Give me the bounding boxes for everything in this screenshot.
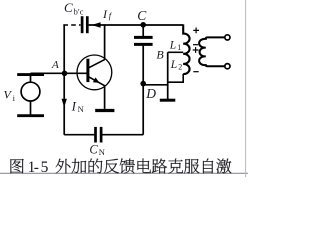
svg-text:-: - <box>34 159 39 176</box>
svg-text:5: 5 <box>41 159 49 176</box>
transistor base bar <box>86 59 89 82</box>
page rule vertical right <box>245 0 247 177</box>
svg-text:B: B <box>156 48 164 62</box>
svg-text:A: A <box>51 59 59 71</box>
transformer secondary coil <box>199 37 224 66</box>
svg-text:L: L <box>169 40 176 52</box>
wire: tap B to coil <box>168 51 184 53</box>
secondary terminal bottom <box>225 64 230 69</box>
transistor collector diagonal <box>89 59 105 67</box>
capacitor C leads <box>142 25 144 36</box>
wire: L2 bottom return <box>168 74 183 82</box>
node D junction dot <box>140 81 146 87</box>
wire: bottom horizontal right of CN <box>102 134 143 136</box>
transistor Q1 circle <box>77 55 112 90</box>
secondary terminal top <box>225 35 230 40</box>
ground bar at D <box>160 99 176 102</box>
source Vi vertical lead <box>30 73 32 115</box>
wire: bottom horizontal <box>64 134 94 136</box>
capacitor Cb'c plates <box>82 16 87 33</box>
wire: top horizontal (Cb'c to L1 corner) <box>89 24 184 26</box>
svg-text:I: I <box>71 99 77 114</box>
node A dot <box>62 71 68 77</box>
polarity marks primary <box>193 28 199 72</box>
wire: emitter vertical <box>104 85 106 109</box>
wire: feedback left vertical (A column) <box>63 24 65 134</box>
transistor emitter diagonal <box>89 77 105 86</box>
capacitor CN plates <box>96 127 102 143</box>
svg-text:2: 2 <box>178 62 182 71</box>
svg-text:i: i <box>13 93 16 103</box>
wire: collector vertical <box>104 24 106 59</box>
svg-text:V: V <box>4 87 13 101</box>
svg-text:1: 1 <box>177 43 181 52</box>
caption figure 1-5 <box>11 159 232 174</box>
svg-text:L: L <box>170 59 177 71</box>
source Vi top bar <box>17 73 44 76</box>
arrow If pointing left <box>92 22 101 28</box>
source Vi bottom bar <box>17 114 44 117</box>
page rule horizontal <box>0 172 248 174</box>
svg-text:I: I <box>102 7 108 21</box>
wire: dashed feedback to Cb'c <box>63 24 80 26</box>
transistor emitter arrow <box>93 77 100 83</box>
svg-text:N: N <box>99 147 105 157</box>
source Vi circle <box>21 82 40 101</box>
svg-text:f: f <box>109 11 113 21</box>
node C dot <box>140 22 146 28</box>
wire: right vertical C cap down to bottom <box>142 46 144 135</box>
wire: base lead <box>31 72 87 74</box>
inductor L1 L2 primary coil <box>183 24 189 74</box>
capacitor C plates <box>134 37 153 44</box>
wire: D row horizontal <box>143 84 168 86</box>
svg-text:C: C <box>137 8 147 23</box>
svg-text:D: D <box>145 86 156 101</box>
svg-text:b′c: b′c <box>74 7 84 17</box>
arrow IN down <box>62 99 67 108</box>
ground bar at emitter <box>95 109 114 112</box>
svg-text:N: N <box>78 104 84 114</box>
wire: ground column vertical <box>167 52 169 99</box>
svg-text:C: C <box>89 143 98 157</box>
svg-text:C: C <box>64 0 73 15</box>
